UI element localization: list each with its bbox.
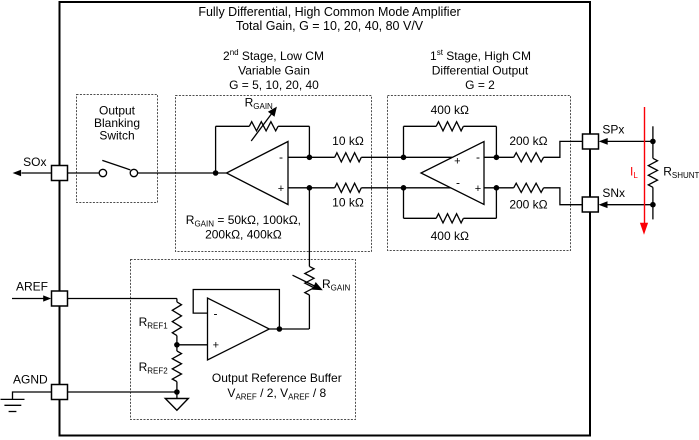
resistor 400k top [436, 122, 463, 131]
SNx input arrow [607, 204, 653, 206]
wire 200k top to SPx [544, 141, 583, 157]
switch S1 right contact [130, 169, 137, 176]
svg-text:+: + [213, 340, 219, 352]
resistor 10k bottom [335, 183, 362, 192]
wire divider to U3 plus [177, 344, 208, 346]
svg-text:G = 2: G = 2 [465, 78, 495, 92]
wire 400k bottom left [404, 217, 437, 219]
op-amp U1 [421, 142, 484, 205]
pin SPx [583, 134, 599, 149]
wire 400k bottom right vertical [495, 188, 497, 219]
svg-text:200 kΩ: 200 kΩ [509, 134, 547, 148]
svg-text:Output Reference Buffer: Output Reference Buffer [212, 371, 342, 385]
potentiometer RGAIN arrow (reference) [293, 275, 316, 286]
pin SOx [52, 166, 68, 181]
switch S1 left contact [99, 169, 106, 176]
wire 400k top right [463, 125, 496, 127]
potentiometer RGAIN (reference) [305, 266, 314, 295]
junction dot U1 plus [494, 185, 500, 191]
wire U2 feedback left vertical [215, 126, 217, 173]
load current IL arrowhead [640, 223, 648, 235]
svg-text:2nd Stage, Low CM: 2nd Stage, Low CM [223, 48, 324, 63]
svg-text:-: - [279, 150, 283, 164]
svg-text:-: - [214, 306, 218, 320]
svg-text:10 kΩ: 10 kΩ [332, 195, 364, 209]
resistor 10k top [335, 153, 362, 162]
junction dot row A right [401, 155, 407, 161]
AGND ground symbol [13, 392, 52, 399]
resistor 200k top [514, 153, 544, 162]
junction dot row B right [401, 185, 407, 191]
wire AREF to RREF1 [68, 298, 177, 300]
svg-text:Fully Differential, High Commo: Fully Differential, High Common Mode Amp… [198, 5, 460, 19]
svg-text:Differential Output: Differential Output [432, 64, 529, 78]
output blanking switch dashed box [77, 95, 158, 203]
AREF input arrow [12, 298, 44, 300]
pin SNx [582, 197, 598, 212]
output reference buffer dashed box [131, 260, 356, 420]
wire SOx to switch [68, 172, 100, 174]
RSHUNT top stub [652, 126, 654, 158]
svg-text:10 kΩ: 10 kΩ [332, 134, 364, 148]
SOx output arrow [22, 172, 52, 174]
junction dot U3 output [277, 326, 283, 332]
resistor 200k bottom [514, 183, 544, 192]
wire U3 output [269, 328, 309, 330]
wire 400k top left vertical [403, 126, 405, 157]
svg-text:G = 5, 10, 20, 40: G = 5, 10, 20, 40 [229, 78, 319, 92]
wire U3 feedback [193, 290, 279, 330]
resistor RREF2 [176, 345, 178, 351]
svg-text:SPx: SPx [602, 123, 624, 137]
SPx input arrow [607, 140, 653, 142]
svg-text:+: + [454, 155, 460, 167]
wire 10k bottom to U1 [361, 187, 450, 189]
op-amp U3 [208, 298, 270, 360]
wire U2 feedback right vertical [308, 126, 310, 157]
1st stage dashed box [388, 96, 571, 251]
junction dot U2 output node [213, 170, 219, 176]
junction dot RREF2 bottom [174, 389, 180, 395]
junction dot RSHUNT top [650, 139, 656, 145]
junction dot row B left [307, 185, 313, 191]
wire U1 plus input [484, 187, 514, 189]
2nd stage dashed box [176, 96, 372, 252]
junction dot U1 minus [494, 155, 500, 161]
svg-text:Variable Gain: Variable Gain [238, 64, 310, 78]
svg-text:SOx: SOx [23, 155, 46, 169]
junction dot row A left [307, 155, 313, 161]
switch S1 lever [102, 160, 130, 170]
wire 400k top left [404, 125, 437, 127]
svg-text:+: + [475, 183, 481, 195]
svg-text:AREF: AREF [16, 279, 48, 293]
pin AREF [52, 291, 68, 306]
op-amp U2 [227, 142, 289, 205]
wire U2 feedback top left [216, 125, 250, 127]
wire RGAIN to U3 output [308, 295, 310, 329]
wire 400k bottom left vertical [403, 188, 405, 219]
wire 200k bottom to SNx [544, 188, 583, 205]
load current IL line [644, 107, 646, 226]
analog ground triangle [165, 399, 188, 411]
resistor RSHUNT [648, 158, 657, 187]
wire 400k bottom right [463, 217, 496, 219]
pin AGND [52, 385, 68, 400]
wire switch to U2 output [138, 172, 227, 174]
wire U1 minus input [484, 156, 514, 158]
wire U2 feedback top right [278, 125, 309, 127]
chip boundary box [60, 2, 591, 436]
svg-text:+: + [278, 183, 284, 195]
wire AGND to RREF2 [68, 391, 177, 393]
svg-text:SNx: SNx [602, 186, 625, 200]
potentiometer RGAIN (2nd stage) [249, 122, 278, 131]
svg-text:400 kΩ: 400 kΩ [431, 229, 469, 243]
wire U2 plus input [288, 187, 335, 189]
svg-text:Switch: Switch [99, 129, 134, 143]
junction dot RREF divider [174, 342, 180, 348]
wire 10k top to U1 [361, 156, 452, 158]
svg-text:200 kΩ: 200 kΩ [509, 197, 547, 211]
svg-text:400 kΩ: 400 kΩ [431, 103, 469, 117]
svg-text:-: - [456, 176, 460, 190]
resistor 400k bottom [436, 214, 463, 223]
junction dot RSHUNT bottom [650, 202, 656, 208]
svg-text:200kΩ, 400kΩ: 200kΩ, 400kΩ [205, 228, 282, 242]
wire U2 minus input [288, 156, 335, 158]
svg-text:-: - [476, 150, 480, 164]
wire 400k top right vertical [495, 126, 497, 157]
svg-text:Total Gain, G = 10, 20, 40, 80: Total Gain, G = 10, 20, 40, 80 V/V [236, 19, 424, 33]
potentiometer RGAIN arrow (2nd stage) [251, 113, 272, 142]
wire U2 plus node down to RGAIN [308, 188, 310, 267]
resistor RREF1 [176, 299, 178, 302]
RSHUNT bottom stub [652, 187, 654, 219]
svg-text:AGND: AGND [13, 373, 48, 387]
svg-text:1st Stage, High CM: 1st Stage, High CM [430, 48, 531, 63]
